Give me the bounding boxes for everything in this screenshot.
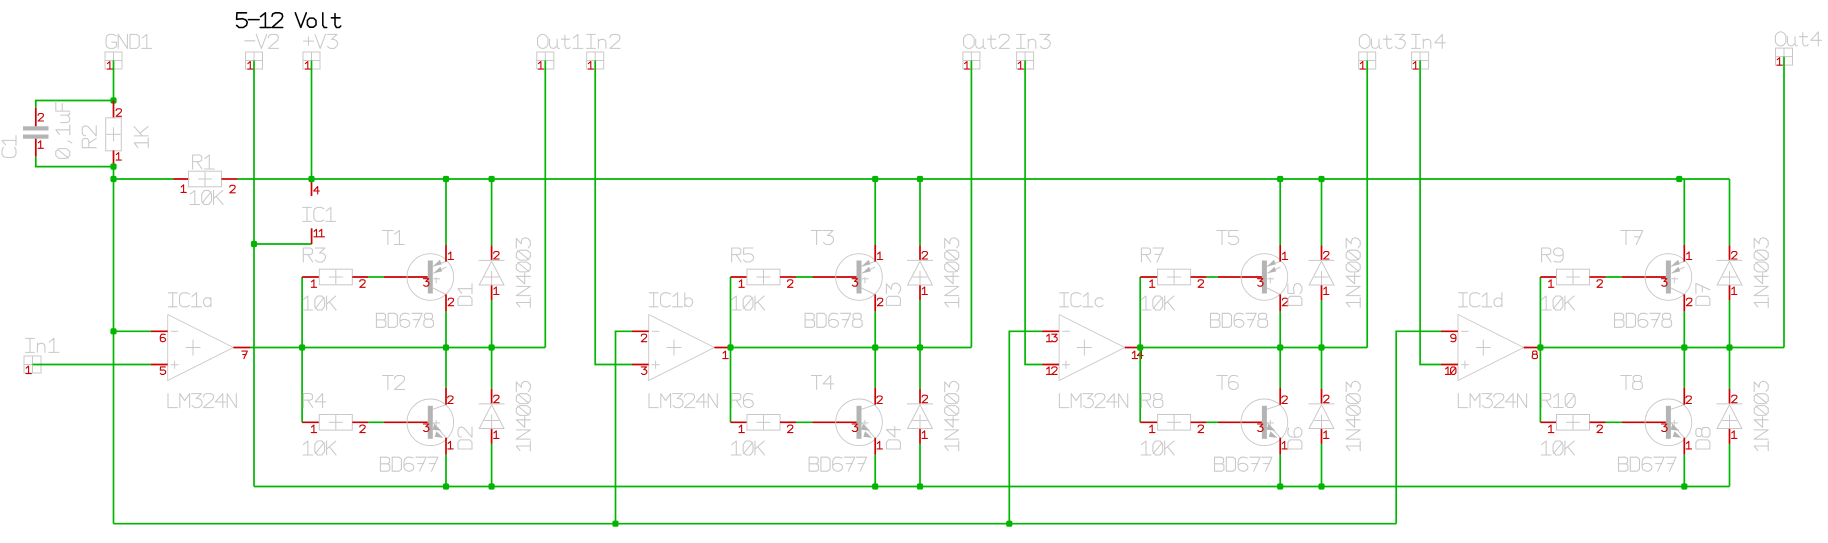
wire -V2 to bus	[253, 244, 255, 487]
junction IC1a inverting tap	[110, 328, 116, 334]
wire collector to output row (lower)	[1279, 348, 1281, 388]
power pad -V2	[245, 34, 279, 69]
wire to base (lower)	[368, 421, 384, 423]
wire C1 top branch	[36, 101, 114, 108]
wire lower diode top	[919, 348, 921, 389]
junction on rail (transistor)	[1277, 176, 1283, 182]
wire emitter to output row	[445, 311, 447, 347]
junction on output row (diode)	[1318, 344, 1324, 350]
wire to base	[368, 276, 384, 278]
connector pad Out1	[537, 34, 583, 69]
diode D6 1N4003	[1288, 381, 1360, 451]
wire upper/lower resistor feed	[301, 277, 303, 422]
wire IC1a inverting input	[114, 330, 151, 332]
junction output node IC1c	[1137, 344, 1143, 350]
wire rail segment left	[114, 178, 174, 180]
wire diode to rail	[491, 179, 493, 245]
wire diode to rail	[1729, 179, 1731, 245]
junction on -V bus (transistor)	[872, 483, 878, 489]
wire In4 to IC1d non-inverting	[1420, 61, 1441, 365]
connector pad In4	[1412, 34, 1446, 69]
wire IC1c inverting to reference bus	[1009, 331, 1042, 523]
diode D2 1N4003	[458, 381, 530, 451]
capacitor C1	[2, 101, 72, 158]
wire IC1b inverting to reference bus	[616, 331, 632, 523]
diode D7 1N4003	[1696, 238, 1768, 308]
wire emitter to output row	[1683, 311, 1685, 347]
wire GND1 to R2/C1 node	[113, 61, 115, 101]
wire lower diode to -V bus	[491, 444, 493, 487]
connector pad Out4	[1775, 32, 1821, 65]
wire collector to rail	[445, 179, 447, 245]
wire reference column down to inverting bus	[113, 179, 115, 524]
junction on reference bus	[612, 521, 618, 527]
wire emitter to -V bus	[874, 455, 876, 487]
resistor R5 10K	[731, 248, 797, 310]
wire In1 to IC1a non-inverting	[33, 364, 151, 366]
transistor T2 BD677	[380, 376, 453, 472]
diode D1 1N4003	[458, 238, 530, 308]
wire lower diode top	[491, 348, 493, 389]
junction on -V bus (transistor)	[1681, 483, 1687, 489]
wire lower diode to -V bus	[1729, 444, 1731, 487]
wire -V2 down	[253, 61, 255, 245]
diode D8 1N4003	[1696, 381, 1768, 451]
power flag GND1 (pad)	[105, 34, 152, 69]
wire C1 bottom branch	[36, 157, 114, 167]
wire to base	[1606, 276, 1622, 278]
wire reference bus	[114, 523, 1397, 525]
wire collector to rail	[1683, 179, 1685, 245]
connector pad In3	[1017, 34, 1051, 69]
wire output row	[302, 347, 545, 349]
wire Out1	[544, 61, 546, 348]
wire to base (lower)	[1606, 421, 1622, 423]
junction on rail (diode)	[917, 176, 923, 182]
junction output node IC1a	[299, 344, 305, 350]
transistor T7 BD678	[1615, 231, 1692, 328]
wire Out2	[970, 61, 972, 348]
junction -V2 branch	[251, 241, 257, 247]
resistor R3 10K	[302, 248, 368, 310]
wire IC1d inverting to reference bus	[1396, 331, 1441, 523]
connector pad Out2	[963, 34, 1009, 69]
junction on output row (transistor)	[443, 344, 449, 350]
junction on rail (transistor)	[443, 176, 449, 182]
wire output row	[1140, 347, 1367, 349]
junction on output row (diode)	[917, 344, 923, 350]
wire emitter to output row	[874, 311, 876, 347]
junction on -V bus (transistor)	[443, 483, 449, 489]
wire diode to output row	[491, 300, 493, 347]
junction +V3 on rail	[308, 176, 314, 182]
junction on output row (transistor)	[1681, 344, 1687, 350]
resistor R8 10K	[1140, 394, 1206, 456]
wire diode to output row	[1321, 300, 1323, 347]
transistor T3 BD678	[805, 231, 883, 328]
wire emitter to -V bus	[1279, 455, 1281, 487]
connector pad In2	[587, 34, 621, 69]
junction on rail (diode)	[1318, 176, 1324, 182]
wire collector to output row (lower)	[874, 348, 876, 388]
wire upper/lower resistor feed	[1139, 277, 1141, 422]
transistor T8 BD677	[1619, 376, 1692, 472]
op-amp IC1b LM324N	[632, 293, 731, 408]
connector pad In1	[24, 338, 59, 373]
junction on -V bus (transistor)	[1277, 483, 1283, 489]
wire to base	[796, 276, 813, 278]
wire collector to rail	[1279, 179, 1281, 245]
diode D4 1N4003	[886, 381, 958, 451]
connector pad Out3	[1359, 34, 1406, 69]
power pad +V3	[303, 34, 338, 69]
wire In2 to IC1b non-inverting	[595, 61, 632, 365]
wire +V rail	[238, 178, 1730, 180]
resistor R1 10K	[173, 155, 237, 205]
wire collector to output row (lower)	[445, 348, 447, 388]
wire emitter to -V bus	[1683, 455, 1685, 487]
junction C1/R2 bottom	[110, 164, 116, 170]
wire Out3	[1366, 61, 1368, 348]
wire R2 node to rail	[113, 167, 115, 179]
transistor T1 BD678	[376, 231, 453, 328]
resistor R4 10K	[302, 394, 368, 456]
wire to base (lower)	[796, 421, 813, 423]
resistor R9 10K	[1540, 248, 1605, 310]
junction on reference bus	[1006, 521, 1012, 527]
transistor T5 BD678	[1211, 231, 1288, 328]
wire diode to output row	[1729, 300, 1731, 347]
wire IC1a output	[250, 347, 302, 349]
wire diode to output row	[919, 300, 921, 347]
resistor R6 10K	[731, 394, 797, 456]
wire emitter to -V bus	[445, 455, 447, 487]
diode D5 1N4003	[1288, 238, 1360, 308]
junction on output row (transistor)	[1277, 344, 1283, 350]
resistor R2 1K	[82, 101, 148, 167]
wire lower diode to -V bus	[919, 444, 921, 487]
wire upper/lower resistor feed	[1539, 277, 1541, 422]
wire diode to rail	[1321, 179, 1323, 245]
junction on rail (transistor)	[872, 176, 878, 182]
wire upper/lower resistor feed	[730, 277, 732, 422]
junction on output row (diode)	[489, 344, 495, 350]
transistor T6 BD677	[1215, 376, 1288, 472]
wire collector to output row (lower)	[1683, 348, 1685, 388]
wire to base (lower)	[1207, 421, 1218, 423]
wire -V2 bus	[254, 486, 1730, 488]
op-amp IC1a LM324N	[151, 293, 251, 408]
junction on rail (transistor)	[1676, 176, 1682, 182]
junction output node IC1b	[727, 344, 733, 350]
junction on -V bus (diode)	[1318, 483, 1324, 489]
op-amp IC1c LM324N	[1042, 293, 1143, 408]
wire output row	[731, 347, 972, 349]
resistor R10 10K	[1540, 394, 1605, 456]
junction on rail (diode)	[489, 176, 495, 182]
wire In3 to IC1c non-inverting	[1025, 61, 1042, 365]
wire lower diode to -V bus	[1321, 444, 1323, 487]
wire diode to rail	[919, 179, 921, 245]
junction on -V bus (diode)	[917, 483, 923, 489]
wire lower diode top	[1729, 348, 1731, 389]
wire +V3 down to rail	[311, 61, 313, 180]
wire Out4	[1783, 57, 1785, 348]
transistor T4 BD677	[809, 376, 882, 472]
junction on output row (transistor)	[872, 344, 878, 350]
wire collector to rail	[874, 179, 876, 245]
wire to base	[1207, 276, 1218, 278]
junction on -V bus (diode)	[489, 483, 495, 489]
title 5-12 Volt	[237, 13, 341, 28]
junction output node IC1d	[1537, 344, 1543, 350]
wire emitter to output row	[1279, 311, 1281, 347]
junction on output row (diode)	[1726, 344, 1732, 350]
wire lower diode top	[1321, 348, 1323, 389]
op-amp IC1d LM324N	[1441, 293, 1540, 408]
IC power IC1 pins 4/11	[303, 180, 336, 244]
junction rail at reference column	[110, 176, 116, 182]
wire -V2 to IC1 pin 11	[254, 243, 312, 245]
wire output row	[1540, 347, 1784, 349]
junction C1/R2 top	[110, 97, 116, 103]
resistor R7 10K	[1140, 248, 1206, 310]
diode D3 1N4003	[886, 238, 958, 308]
